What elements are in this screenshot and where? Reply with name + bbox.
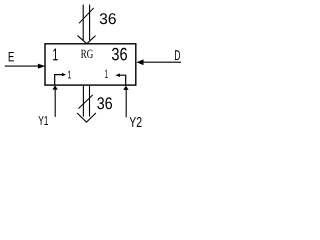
bus arrowhead (top, open V) [78, 36, 96, 44]
node D label [175, 50, 180, 60]
wire E input [5, 65, 39, 67]
node Y2 label [130, 117, 142, 127]
node Y1 label [39, 116, 49, 125]
bus width label 36 (top) [100, 13, 116, 24]
function label RG [81, 50, 93, 58]
wire Y2 input [125, 89, 127, 117]
arrowhead E [38, 64, 45, 69]
internal pin label 1 (right) [105, 70, 108, 78]
bus width slash (bottom) [78, 95, 92, 109]
input bus wire (top, two parallel lines) [83, 5, 89, 41]
arrowhead Y1 [52, 85, 57, 89]
node E label [9, 52, 14, 61]
arrowhead Y2 [123, 86, 128, 90]
internal clock wire (right) [120, 75, 126, 85]
wire D input [143, 61, 181, 63]
output bus wire (bottom, two parallel lines) [83, 86, 89, 117]
internal clock wire (left) [55, 75, 63, 85]
internal pin label 1 (left) [68, 71, 71, 79]
register box U1 [45, 44, 136, 85]
internal arrowhead (left) [62, 73, 66, 77]
bus arrowhead (bottom, open V) [77, 113, 96, 122]
pin label 36 (box top-right) [112, 48, 127, 61]
arrowhead D [136, 59, 143, 65]
bus width slash (top) [79, 8, 94, 23]
wire Y1 input [54, 89, 56, 117]
internal arrowhead (right) [115, 73, 120, 77]
pin label 1 (box top-left) [53, 49, 58, 61]
bus width label 36 (bottom) [97, 97, 112, 109]
